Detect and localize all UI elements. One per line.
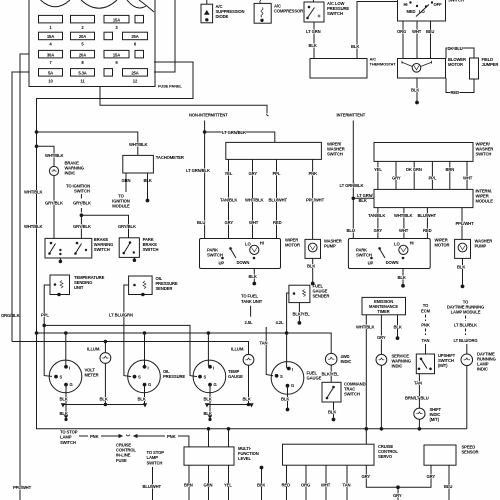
svg-text:BLK: BLK <box>243 396 251 401</box>
wire PNK to washer pump 1 <box>312 159 314 239</box>
svg-text:GAUGE: GAUGE <box>228 374 243 379</box>
svg-text:PPL: PPL <box>41 312 49 317</box>
svg-text:PRESSURE: PRESSURE <box>163 374 185 379</box>
park brake switch <box>119 238 139 262</box>
svg-text:PPL/WHT: PPL/WHT <box>306 198 325 203</box>
svg-text:ILLUM.: ILLUM. <box>87 346 100 351</box>
wire WHT/BLK to motor 2 <box>403 208 405 239</box>
svg-text:S: S <box>60 375 63 380</box>
washer pump 2 <box>455 239 471 258</box>
svg-text:DOWN: DOWN <box>237 260 250 265</box>
fuse F6 25A <box>123 32 148 40</box>
svg-text:BLK: BLK <box>307 264 315 269</box>
wire BLK blower feed to thermostat <box>357 2 398 59</box>
svg-text:TO STOP: TO STOP <box>60 429 78 434</box>
wire GRY to wiper motor 1 <box>252 159 254 238</box>
wire PPL to wiper motor 1 <box>276 159 278 238</box>
svg-text:25A: 25A <box>131 71 138 76</box>
svg-text:S: S <box>204 375 207 380</box>
wire PPL/WHT to washer pump 2 <box>461 208 463 240</box>
wire volt G to ground rail <box>65 385 67 405</box>
svg-text:BLK: BLK <box>144 178 152 183</box>
svg-text:SENSOR: SENSOR <box>462 450 479 455</box>
svg-text:MODULE: MODULE <box>112 204 130 209</box>
svg-text:BLU: BLU <box>444 484 452 489</box>
junction temp I <box>207 332 210 335</box>
svg-text:BLU/WHT: BLU/WHT <box>418 213 437 218</box>
wire oil G to ground rail <box>144 385 146 405</box>
fuse panel <box>29 0 155 87</box>
lamp service warning indic <box>376 354 387 365</box>
svg-text:LT GRN/BLK: LT GRN/BLK <box>340 183 364 188</box>
svg-text:WHT/BLK: WHT/BLK <box>24 224 43 229</box>
wire to park brake switch <box>81 215 128 238</box>
svg-text:GRN: GRN <box>204 483 213 488</box>
wiper washer switch 1 <box>226 142 322 159</box>
interm wiper module <box>374 189 473 207</box>
svg-text:PPL: PPL <box>273 171 281 176</box>
wire service indic to bus <box>380 365 382 429</box>
svg-text:S: S <box>280 374 283 379</box>
fuse slot row3 <box>135 50 144 58</box>
fuse F2 <box>71 15 95 23</box>
svg-text:MOTOR: MOTOR <box>435 243 450 248</box>
wire BLU <box>430 21 432 59</box>
svg-text:(M/T): (M/T) <box>438 363 448 368</box>
gauge oil pressure <box>128 360 161 393</box>
A/C compressor <box>254 0 271 23</box>
brake warning switch <box>45 238 92 262</box>
fuel gauge sender <box>289 285 310 302</box>
wire BLK wiper motor 2 ground <box>402 269 404 285</box>
svg-text:BLK: BLK <box>411 88 419 93</box>
svg-text:BLK: BLK <box>351 44 359 49</box>
wire ORG <box>402 21 404 59</box>
wire dashed DRL <box>465 316 467 322</box>
upshift switch <box>416 354 434 374</box>
svg-text:INDIC: INDIC <box>477 367 488 372</box>
svg-text:WHT: WHT <box>249 220 259 225</box>
svg-text:WHT/BLK: WHT/BLK <box>356 324 375 329</box>
A/C low pressure switch <box>304 0 324 22</box>
wire WHT interm <box>466 161 468 189</box>
wiper washer switch 2 <box>374 143 473 162</box>
svg-text:G: G <box>148 382 151 387</box>
wire fuel sender to bus <box>287 293 289 333</box>
svg-text:BLU: BLU <box>347 228 355 233</box>
blower switch <box>398 0 446 21</box>
wiper motor 2 <box>348 239 430 269</box>
wire BLK/YEL to command trac <box>330 365 332 382</box>
svg-text:PNK: PNK <box>90 434 99 439</box>
svg-text:RED: RED <box>451 90 460 95</box>
svg-text:I: I <box>213 366 214 371</box>
svg-text:GRY: GRY <box>225 220 234 225</box>
command trac switch <box>322 382 341 402</box>
svg-text:15A: 15A <box>113 52 120 57</box>
svg-text:BLK: BLK <box>457 265 465 270</box>
oil pressure sender <box>129 276 153 296</box>
svg-text:12: 12 <box>133 78 138 83</box>
svg-text:GRY/BLK: GRY/BLK <box>73 200 91 205</box>
wire dashed from ignition switch <box>80 194 82 215</box>
svg-text:LT BLU/BLK: LT BLU/BLK <box>454 322 477 327</box>
svg-text:INTERMITTENT: INTERMITTENT <box>337 113 366 118</box>
svg-text:GRY: GRY <box>392 176 401 181</box>
svg-text:GRY: GRY <box>249 171 258 176</box>
svg-text:METER: METER <box>85 373 99 378</box>
fuse F9 15A <box>104 50 129 58</box>
wire BLK from tachometer to ground <box>147 173 149 199</box>
blower motor <box>398 59 446 79</box>
svg-text:LAMP: LAMP <box>60 435 72 440</box>
wire bus line A <box>44 325 197 376</box>
junction interm module branch <box>352 197 355 200</box>
svg-text:BLK: BLK <box>60 411 68 416</box>
multi-function lever <box>184 447 234 465</box>
svg-text:YEL: YEL <box>225 171 233 176</box>
lamp brake warning indic <box>49 166 58 175</box>
wire panel bottom to wiper feed <box>100 87 267 114</box>
wire bottom bus <box>37 333 467 429</box>
wire dashed fuel tank 2.5L <box>250 306 252 317</box>
wire YEL <box>228 465 230 500</box>
svg-text:PUMP: PUMP <box>475 243 487 248</box>
wire non-intermittent feed <box>204 121 206 239</box>
svg-text:TIMER: TIMER <box>377 309 389 314</box>
svg-text:25A: 25A <box>131 34 138 39</box>
svg-text:TO: TO <box>423 303 429 308</box>
gauge fuel <box>271 362 304 395</box>
svg-text:15A: 15A <box>47 34 54 39</box>
wire BLK washer pump 1 ground <box>312 258 314 282</box>
svg-text:20A: 20A <box>79 52 86 57</box>
svg-text:BLK: BLK <box>100 396 108 401</box>
svg-text:LT GRN: LT GRN <box>306 29 321 34</box>
fuse slot row1 <box>135 15 144 23</box>
wire BRN interm <box>449 161 451 189</box>
svg-text:TO FUEL: TO FUEL <box>241 293 259 298</box>
wire DK BLU jumper top <box>446 48 474 59</box>
svg-text:SWITCH: SWITCH <box>147 460 163 465</box>
wire BLK floating <box>260 466 263 469</box>
wire DK GRN interm <box>413 161 415 189</box>
svg-text:10: 10 <box>48 78 53 83</box>
svg-text:SWITCH: SWITCH <box>207 252 223 257</box>
wire WHT/BLK branch to tachometer <box>37 132 138 155</box>
svg-text:LEVEL: LEVEL <box>238 456 251 461</box>
svg-text:BLK: BLK <box>204 411 212 416</box>
wire temp G to ground rail <box>209 385 211 405</box>
wire BLU/WHT <box>152 467 154 500</box>
svg-text:PNK: PNK <box>167 434 176 439</box>
svg-text:I: I <box>69 366 70 371</box>
wire YEL interm <box>377 161 379 189</box>
wire TAN <box>346 465 348 500</box>
svg-text:SWITCH: SWITCH <box>74 189 90 194</box>
wire bus line B <box>37 333 332 353</box>
lamp illum 1 <box>100 353 111 364</box>
svg-text:TAN: TAN <box>343 483 351 488</box>
svg-text:SWITCH: SWITCH <box>94 247 110 252</box>
junction ignition branch <box>80 214 83 217</box>
fuse F1 <box>39 15 63 23</box>
wire PNK with in-line fuse <box>79 434 189 447</box>
svg-text:S: S <box>138 375 141 380</box>
A/C suppression diode <box>201 0 213 23</box>
junction bus multifunction taps <box>207 428 210 431</box>
svg-text:COMPRESSOR: COMPRESSOR <box>274 9 303 14</box>
junction LT GRN/BLK t1 <box>203 131 206 134</box>
fuse F12 25A <box>123 69 148 77</box>
junction illum 1 <box>104 340 107 343</box>
svg-text:BLK: BLK <box>249 274 257 279</box>
wire GRY servo to speed sensor <box>366 465 431 487</box>
wire WHT <box>325 465 327 500</box>
wire RED <box>286 465 288 500</box>
wire shift indic to bus <box>418 419 420 429</box>
wire fuel G ground <box>287 386 289 408</box>
svg-text:NON-INTERMITTENT: NON-INTERMITTENT <box>189 113 228 118</box>
svg-text:SWITCH: SWITCH <box>327 151 343 156</box>
svg-text:GRY: GRY <box>377 335 386 340</box>
svg-text:WHT: WHT <box>463 176 473 181</box>
svg-text:SWITCH: SWITCH <box>448 0 464 3</box>
svg-text:5.3A: 5.3A <box>78 71 86 76</box>
svg-text:UNIT: UNIT <box>74 285 84 290</box>
svg-text:RED: RED <box>282 483 291 488</box>
svg-text:INDIC: INDIC <box>392 363 403 368</box>
svg-text:BRN: BRN <box>446 167 455 172</box>
svg-text:BLU: BLU <box>197 220 205 225</box>
junction ignition column upper <box>35 131 38 134</box>
emission maintenance timer <box>362 297 406 314</box>
svg-text:HI: HI <box>404 2 408 7</box>
svg-text:INDIC: INDIC <box>341 359 352 364</box>
svg-text:GRY/BLK: GRY/BLK <box>73 224 91 229</box>
wire TAN to fuel gauge <box>266 327 273 376</box>
svg-text:MOTOR: MOTOR <box>285 243 300 248</box>
svg-text:BLK: BLK <box>138 396 146 401</box>
svg-text:15A: 15A <box>113 17 120 22</box>
svg-text:ORG: ORG <box>301 483 310 488</box>
svg-text:LO: LO <box>394 241 400 246</box>
junction bus WHT/BLK <box>365 428 368 431</box>
svg-text:UP: UP <box>219 261 225 266</box>
svg-text:30A: 30A <box>47 52 54 57</box>
temperature sending unit <box>50 275 70 296</box>
svg-text:TAN: TAN <box>414 381 422 386</box>
svg-text:WHT/BLK: WHT/BLK <box>24 190 43 195</box>
svg-text:LT BLU/GRN: LT BLU/GRN <box>109 312 133 317</box>
wire WHT/BLK from timer to bottom bus <box>365 315 367 429</box>
wire WHT/BLK to cruise servo <box>365 429 367 444</box>
cruise control servo <box>283 444 375 465</box>
svg-text:I: I <box>292 367 293 372</box>
junction ignition column lower <box>35 145 38 148</box>
wire LT GRN to thermostat <box>313 22 315 59</box>
wire BLK washer pump 2 ground <box>462 258 464 285</box>
svg-text:LT GRN/BLK: LT GRN/BLK <box>222 130 246 135</box>
svg-text:GRN: GRN <box>122 178 131 183</box>
svg-text:LAMP: LAMP <box>147 455 159 460</box>
wire GRY from timer to service indic <box>380 315 382 355</box>
svg-text:ORG: ORG <box>397 29 406 34</box>
svg-text:BRN: BRN <box>184 483 193 488</box>
svg-text:GRY/BLK: GRY/BLK <box>45 200 63 205</box>
svg-text:YEL: YEL <box>224 483 232 488</box>
svg-text:DOWN: DOWN <box>386 260 399 265</box>
svg-text:TAN/BLK: TAN/BLK <box>220 198 237 203</box>
svg-text:BLU/WHT: BLU/WHT <box>143 484 162 489</box>
svg-text:RED: RED <box>273 220 282 225</box>
svg-text:SERVO: SERVO <box>378 454 393 459</box>
svg-text:WHT/BLK: WHT/BLK <box>394 213 413 218</box>
svg-text:BLK: BLK <box>281 396 289 401</box>
ground blower motor <box>416 101 419 104</box>
lamp 4WD indic <box>325 353 337 365</box>
svg-text:HI: HI <box>260 241 264 246</box>
svg-text:MED: MED <box>407 9 416 14</box>
svg-text:SENDER: SENDER <box>156 286 173 291</box>
lamp illum 2 <box>243 354 254 365</box>
svg-text:I: I <box>148 366 149 371</box>
wire panel left upper to PPL/WHT vertical <box>20 54 29 500</box>
svg-text:LAMP MODULE: LAMP MODULE <box>451 310 481 315</box>
svg-text:MOTOR: MOTOR <box>448 62 463 67</box>
wire LT GRN/BLK branch to wiper switch 1 <box>205 132 275 142</box>
svg-text:TANK UNIT: TANK UNIT <box>241 299 263 304</box>
svg-text:(M/T): (M/T) <box>430 417 440 422</box>
wire PPL from temp unit <box>44 285 52 376</box>
svg-text:BLK/YEL: BLK/YEL <box>293 312 311 317</box>
fuse F8 20A <box>71 50 95 58</box>
svg-text:G: G <box>70 382 73 387</box>
svg-text:BLK: BLK <box>309 43 317 48</box>
svg-text:SWITCH: SWITCH <box>143 247 159 252</box>
svg-text:BRN/LT BLU: BRN/LT BLU <box>405 395 429 400</box>
svg-text:THERMOSTAT: THERMOSTAT <box>370 62 397 67</box>
svg-text:BLK: BLK <box>257 483 265 488</box>
wire BLK command trac ground <box>333 402 335 418</box>
ground rail right <box>204 403 253 420</box>
svg-text:SWITCH: SWITCH <box>60 440 76 445</box>
svg-text:SWITCH: SWITCH <box>476 152 492 157</box>
fuse F7 30A <box>39 50 63 58</box>
svg-text:RED: RED <box>423 228 432 233</box>
svg-text:TAN/BLK: TAN/BLK <box>368 213 385 218</box>
svg-text:SWITCH: SWITCH <box>344 391 360 396</box>
svg-text:SENDER: SENDER <box>313 293 330 298</box>
svg-text:LT GRN/BLK: LT GRN/BLK <box>186 168 210 173</box>
wire bus line C <box>12 342 249 355</box>
svg-text:4.2L: 4.2L <box>276 320 284 325</box>
svg-text:SWITCH: SWITCH <box>327 11 343 16</box>
svg-text:HI: HI <box>410 241 414 246</box>
svg-text:FUSE: FUSE <box>116 458 127 463</box>
wire illum1 to ground rail <box>104 363 106 404</box>
svg-text:BLK: BLK <box>328 410 336 415</box>
fuse F10 5A <box>39 69 63 77</box>
svg-text:ILLUM.: ILLUM. <box>231 346 244 351</box>
svg-text:ORG/BLK: ORG/BLK <box>1 313 20 318</box>
svg-text:WHT/BLK: WHT/BLK <box>129 142 148 147</box>
svg-text:BLK/YEL: BLK/YEL <box>322 372 340 377</box>
svg-text:GRY: GRY <box>362 474 371 479</box>
svg-text:GRY: GRY <box>427 474 436 479</box>
svg-text:SWITCH: SWITCH <box>356 252 372 257</box>
junction bus shift <box>418 428 421 431</box>
wiper motor 1 <box>200 239 281 269</box>
svg-text:FUSE PANEL: FUSE PANEL <box>158 84 183 89</box>
junction volt I <box>65 332 68 335</box>
fuse F11 5.3A <box>71 69 95 77</box>
wire WHT <box>416 21 418 59</box>
svg-text:TAN: TAN <box>422 338 430 343</box>
fuse F5 20A <box>71 32 95 40</box>
wire BLK wiper motor 1 ground <box>253 269 255 283</box>
svg-text:TACHOMETER: TACHOMETER <box>156 155 184 160</box>
junction fuel I <box>285 332 288 335</box>
wire WHT/BLK drop to brake warning indic <box>37 146 55 166</box>
wire ORG <box>305 465 307 500</box>
tachometer <box>123 155 154 173</box>
junction oil I <box>143 332 146 335</box>
wire taps to multifunction lever <box>208 429 210 447</box>
svg-text:BLK: BLK <box>60 396 68 401</box>
svg-text:BLU/WHT: BLU/WHT <box>269 198 288 203</box>
field jumper <box>470 58 479 79</box>
svg-text:UP: UP <box>368 261 374 266</box>
wire BLK from timer to ground <box>397 315 399 337</box>
ground rail left <box>60 403 147 420</box>
fuse slot row4 <box>104 69 113 77</box>
gauge volt meter <box>49 360 82 393</box>
wire panel right tab up (top feed) <box>154 0 175 72</box>
wire LT BLU/GRN from oil sender <box>124 285 131 377</box>
svg-text:BLK: BLK <box>204 396 212 401</box>
svg-text:YEL: YEL <box>374 167 382 172</box>
svg-text:DIODE: DIODE <box>216 14 229 19</box>
wire GRY interm <box>395 161 397 189</box>
wire intermittent feed LT GRN/BLK <box>352 121 354 239</box>
svg-text:PUMP: PUMP <box>324 243 336 248</box>
svg-text:PNK: PNK <box>421 322 430 327</box>
svg-text:2.5L: 2.5L <box>245 320 253 325</box>
svg-text:WHT/BLK: WHT/BLK <box>45 153 64 158</box>
wire DRL indic to bus <box>466 366 468 429</box>
svg-text:GAUGE: GAUGE <box>307 375 322 380</box>
wire panel left lower to ORG/BLK vertical <box>12 72 29 342</box>
svg-text:PPL/WHT: PPL/WHT <box>456 221 475 226</box>
svg-text:GRY/BLK: GRY/BLK <box>118 224 136 229</box>
wire panel right to ignition column <box>37 62 194 333</box>
svg-text:PNK: PNK <box>309 171 318 176</box>
wire BLK blower motor ground <box>416 78 418 101</box>
svg-text:WHT: WHT <box>321 483 331 488</box>
wire PPL interm <box>431 161 433 189</box>
svg-text:GRY: GRY <box>393 493 402 498</box>
washer pump 1 <box>305 239 321 258</box>
svg-text:GRY: GRY <box>374 228 383 233</box>
wire YEL to wiper motor 1 <box>228 159 230 238</box>
svg-text:OFF: OFF <box>434 2 443 7</box>
svg-text:BLK: BLK <box>394 324 402 329</box>
A/C thermostat <box>310 59 367 79</box>
svg-text:BLK: BLK <box>398 275 406 280</box>
ground tach <box>146 199 149 202</box>
wire BRN <box>188 465 190 500</box>
